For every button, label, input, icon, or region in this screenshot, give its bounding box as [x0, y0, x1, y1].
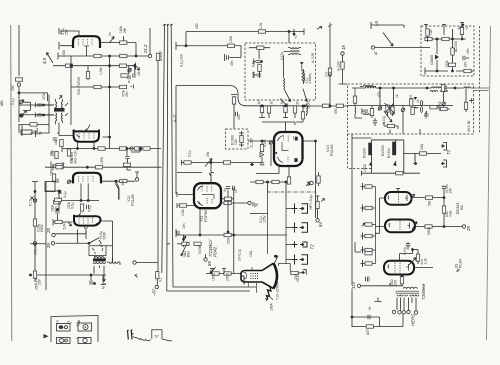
- capacitor C y87: [131, 85, 134, 89]
- picture tube internal electrode dots: [251, 274, 259, 279]
- svg-text:2n: 2n: [270, 101, 274, 105]
- tick c + resistor Ra2: [460, 22, 464, 28]
- svg-text:300Ω: 300Ω: [307, 100, 311, 109]
- wire audio feed: [351, 242, 353, 327]
- tube V6 (PCL85 triode) envelope: [74, 212, 101, 228]
- svg-text:ГЛ: ГЛ: [56, 320, 60, 324]
- resistor R y182a: [256, 180, 263, 183]
- heater bars left: [355, 242, 361, 252]
- resistor Ra6: [448, 63, 455, 66]
- terminal 18c: [135, 178, 138, 181]
- junction dots y200: [80, 200, 82, 202]
- resistor R 7k: [194, 242, 201, 245]
- ground bar: [375, 298, 382, 302]
- zigzag resistor L11 line: [302, 65, 304, 82]
- resistor R 84: [316, 201, 319, 208]
- coil L1: [365, 87, 376, 88]
- resistor Ra5: [451, 48, 454, 55]
- svg-text:150k: 150k: [62, 49, 66, 57]
- wire y92.9: [19, 93, 48, 101]
- diode Da: [435, 55, 439, 60]
- svg-text:AС/100: AС/100: [454, 41, 458, 52]
- svg-text:150: 150: [429, 29, 433, 35]
- dashed box tuner lower extension: [348, 134, 372, 169]
- svg-text:1k: 1k: [395, 94, 399, 98]
- resistor Ra3: [425, 37, 432, 40]
- EHT lightning bolt: [267, 286, 272, 300]
- connector arrow yoke: [301, 270, 307, 275]
- svg-text:AH/MF: AH/MF: [159, 51, 163, 61]
- junction 10n: [183, 238, 185, 240]
- picture tube (side view) envelope: [241, 263, 274, 288]
- capacitor C 40n: [236, 112, 238, 116]
- terminal 84: [316, 219, 319, 222]
- coil tuner b: [430, 91, 448, 92]
- svg-text:1M: 1M: [54, 140, 58, 145]
- ground cap C tg: [426, 111, 428, 114]
- bottom rail parts: [90, 280, 92, 284]
- small box component: [21, 130, 32, 134]
- T2 connector pair (right): [404, 143, 447, 168]
- deflection connector pairs column (middle): [292, 204, 308, 265]
- picture tube screen face: [274, 263, 278, 288]
- trimmer mid: [128, 69, 131, 72]
- wire IF box top: [176, 86, 300, 195]
- svg-text:40n: 40n: [466, 48, 470, 54]
- resistor R v5out: [317, 176, 320, 183]
- wire v5 grid: [248, 140, 274, 166]
- svg-text:0,2M: 0,2M: [263, 139, 267, 147]
- tube V7 (PCF80) envelope: [193, 182, 222, 208]
- switch blade vert: [89, 238, 103, 247]
- wire v6 top: [58, 191, 60, 220]
- resistor R out: [366, 325, 373, 328]
- svg-text:7k/3W: 7k/3W: [198, 244, 202, 254]
- junction dot vol: [210, 162, 212, 164]
- terminal 26: [51, 242, 54, 245]
- tube V8 envelope: [385, 192, 415, 205]
- wire y66 rail: [53, 63, 136, 74]
- V5 grid feed: [262, 122, 295, 132]
- arrow anode: [110, 37, 115, 43]
- svg-text:132k: 132k: [181, 208, 185, 216]
- transistor blob: [21, 115, 23, 117]
- diode D sound: [300, 62, 304, 65]
- mid bus wire C: [171, 24, 256, 287]
- CRT grid resistors: [212, 272, 219, 275]
- trimmer core: [269, 141, 272, 144]
- svg-text:150: 150: [70, 157, 74, 163]
- capacitor C out: [368, 315, 370, 319]
- svg-text:89: 89: [207, 261, 212, 266]
- tube V7 bottom lead: [199, 208, 201, 235]
- wires sound takeoff: [127, 149, 140, 171]
- svg-text:20k: 20k: [121, 180, 125, 186]
- resistor R 100k v3: [52, 174, 55, 181]
- svg-text:100: 100: [234, 139, 238, 145]
- resistor R v7 plate: [224, 201, 231, 204]
- capacitor C1c: [128, 75, 130, 79]
- V10 bottom: [401, 275, 403, 286]
- svg-text:M: M: [102, 286, 106, 289]
- wire component row y103: [232, 103, 300, 105]
- svg-text:BV200: BV200: [363, 148, 367, 158]
- lamp: [33, 242, 36, 245]
- wire CRT anode right: [279, 263, 291, 271]
- svg-text:100n: 100n: [424, 111, 428, 119]
- trimmer osc: [19, 101, 22, 104]
- svg-text:Y12–23SPA: Y12–23SPA: [276, 281, 280, 300]
- resistor R fm: [353, 96, 356, 103]
- antenna post x35: [31, 182, 39, 200]
- junction dot v3 out: [115, 180, 117, 182]
- resistor Ra1: [426, 29, 429, 36]
- wire y243 heater: [30, 242, 89, 245]
- coil MF: [307, 104, 308, 117]
- wire V6 grid: [46, 191, 73, 222]
- coil L fm: [355, 88, 362, 118]
- wires AGC: [428, 29, 467, 48]
- mid bus wire A: [162, 24, 165, 273]
- video det box: diode BY: [239, 131, 244, 147]
- svg-text:150k: 150k: [445, 60, 449, 68]
- svg-text:30Ω: 30Ω: [420, 143, 424, 150]
- capacitor C anode v7: [226, 187, 230, 189]
- picture tube leads: [248, 266, 256, 293]
- arrow AGC 4.5: [47, 53, 54, 64]
- svg-text:А5Т: А5Т: [366, 329, 370, 335]
- wire V7 top: [209, 173, 211, 183]
- trimmer T t1: [378, 107, 381, 110]
- resistor Ra4: [442, 37, 449, 40]
- svg-text:120k: 120k: [100, 156, 104, 164]
- tuner module feed wire: [352, 134, 371, 242]
- terminal 87: [155, 263, 159, 289]
- transformer vertical output: [93, 256, 120, 274]
- resistor on T2 line: [419, 152, 426, 155]
- svg-text:1k: 1k: [234, 189, 238, 193]
- loop wire: [23, 102, 31, 110]
- svg-text:180: 180: [464, 62, 468, 68]
- label A arrow: [317, 27, 322, 30]
- wire y124: [19, 123, 49, 125]
- wires sound box: [260, 51, 291, 78]
- resistor R rail b: [119, 147, 126, 150]
- svg-text:+О: +О: [368, 306, 372, 311]
- svg-text:+2: +2: [294, 35, 298, 39]
- svg-text:АГ: АГ: [374, 51, 378, 55]
- resistor Rs2: [143, 147, 150, 150]
- resistor R t5: [411, 107, 414, 114]
- wire Ra drop: [249, 48, 270, 59]
- svg-text:200Ω: 200Ω: [226, 272, 230, 281]
- right side feed column: [361, 183, 376, 267]
- svg-text:+L: +L: [465, 26, 469, 30]
- capacitor C 0.05u: [33, 219, 36, 226]
- wire V1 grid loop: [59, 28, 79, 50]
- svg-text:83: 83: [306, 181, 311, 186]
- V5 input parts: resistor R vg: [260, 144, 263, 151]
- small box ratio det: [45, 182, 55, 192]
- svg-text:25V: 25V: [38, 278, 42, 285]
- junction diamond: [59, 191, 61, 193]
- wire V3 plate: [102, 181, 135, 199]
- svg-text:A–3Σ: A–3Σ: [173, 114, 177, 122]
- junction dot y167: [86, 166, 88, 168]
- svg-text:20Ω: 20Ω: [390, 279, 394, 286]
- resistor R if2: [55, 151, 58, 158]
- sheet right border line: [487, 26, 491, 340]
- capacitor Ca: [463, 56, 465, 60]
- svg-text:30n: 30n: [367, 276, 371, 282]
- resistor R v8a: [425, 196, 432, 199]
- resistor R v2 cath: [60, 139, 63, 146]
- resistor R1a on y56: [94, 54, 101, 57]
- svg-text:80k: 80k: [328, 71, 332, 77]
- resistor R 30: [301, 112, 304, 119]
- svg-text:BER8: BER8: [438, 101, 442, 110]
- svg-text:125V: 125V: [263, 214, 267, 223]
- resistor R1b on y66: [119, 64, 126, 67]
- resistor R v6 top: [54, 198, 61, 201]
- resistor R v3 plate load: [95, 166, 102, 169]
- svg-text:PL84: PL84: [459, 259, 463, 268]
- capacitor Ct left: [362, 108, 364, 114]
- tube V2 envelope: [74, 125, 99, 142]
- dashed vertical frame line right: [479, 26, 481, 134]
- resistor R v3k: [80, 204, 83, 211]
- tube V3 leads: [71, 182, 88, 201]
- svg-text:56k: 56k: [428, 200, 432, 206]
- wire CRT neck feed: [206, 273, 241, 275]
- svg-text:5,6k: 5,6k: [63, 223, 67, 230]
- resistor R on y167: [56, 166, 63, 169]
- terminal rail: [130, 147, 133, 150]
- capacitor C AGC: [227, 55, 229, 59]
- svg-text:35k: 35k: [50, 150, 54, 156]
- V9 anode wire: [375, 198, 462, 233]
- junction + drop to sound box: [288, 31, 290, 33]
- tick b: [442, 24, 446, 35]
- T bars V7 grid: [177, 192, 194, 208]
- capacitor Cb: [254, 59, 256, 65]
- terminal 113: [357, 284, 360, 287]
- svg-text:4k7: 4k7: [257, 99, 261, 104]
- svg-text:5n: 5n: [296, 101, 300, 105]
- resistor R anode V1: [120, 41, 127, 44]
- capacitor C ratio b: [35, 113, 38, 118]
- wire y200.5: [60, 200, 99, 202]
- arrow IF in: [280, 99, 288, 107]
- resistor R vol2: [223, 161, 230, 164]
- junction dots s: [126, 148, 128, 150]
- svg-text:PCF80: PCF80: [204, 210, 208, 222]
- terminal 89: [204, 258, 207, 261]
- svg-text:T3/68ем: T3/68ем: [421, 284, 426, 300]
- terminal 28L: [52, 233, 55, 236]
- svg-text:20k: 20k: [206, 151, 210, 157]
- wire y56 rail: [58, 53, 148, 60]
- resistor R mains: [33, 271, 36, 278]
- svg-text:5k: 5k: [39, 131, 43, 135]
- capacitor C v5k: [260, 163, 264, 165]
- trimmer V3 grid: [67, 180, 70, 183]
- svg-text:9А: 9А: [460, 205, 464, 210]
- arrow +LY: [321, 199, 325, 202]
- tube V3 envelope: [73, 173, 101, 184]
- tube V6 leads: [78, 230, 87, 244]
- resistor R grid v6: [55, 220, 62, 223]
- svg-text:0,5μ: 0,5μ: [71, 202, 75, 209]
- wire sound output taps: [352, 314, 403, 327]
- svg-text:0,47μ: 0,47μ: [382, 116, 386, 124]
- node +2 tick: [293, 29, 295, 34]
- wire y182 row: [250, 182, 286, 200]
- waveform sketch: [127, 330, 172, 342]
- coil L2: [431, 87, 441, 88]
- svg-text:4,5: 4,5: [42, 57, 47, 64]
- capacitor C y75: [133, 73, 135, 77]
- resistor R anode v7: [224, 197, 231, 200]
- plug ident box: [51, 316, 98, 344]
- wire V1 anode: [99, 36, 136, 56]
- svg-text:0,68: 0,68: [252, 71, 256, 78]
- svg-text:BV200г: BV200г: [381, 144, 385, 156]
- svg-text:84: 84: [318, 222, 323, 227]
- resistor R v5k2: [287, 177, 290, 184]
- svg-text:BY204: BY204: [387, 148, 391, 158]
- svg-text:120k: 120k: [227, 237, 231, 245]
- svg-text:Bild: Bild: [187, 251, 191, 257]
- capacitor C v7: [177, 231, 179, 235]
- svg-text:100k: 100k: [50, 168, 54, 176]
- svg-text:600V: 600V: [40, 223, 44, 232]
- resistor R supply: [442, 206, 445, 213]
- vertical feed x234: [231, 95, 237, 129]
- arrow +L: [458, 24, 464, 29]
- wire video out: [303, 141, 316, 218]
- svg-text:28: 28: [466, 226, 471, 232]
- tube V10 (PL84 output) envelope: [384, 261, 414, 275]
- trimmer T t2: [401, 108, 404, 111]
- resistor R 100k AGC: [227, 44, 234, 47]
- arrow to sync: [115, 183, 118, 199]
- mid bus wire B: [167, 24, 250, 291]
- coil L11 46MHz: [304, 69, 305, 84]
- resistor R sync: [120, 179, 127, 182]
- resistor R t1: [370, 108, 373, 115]
- coil tuner d: [363, 114, 371, 115]
- resistor R 120k on rail: [224, 233, 231, 236]
- row y106: resistor Rj: [322, 104, 329, 107]
- capacitor C ratio a: [35, 103, 38, 108]
- svg-text:ЗВ: ЗВ: [77, 319, 81, 324]
- resistor R1d on y87: [94, 85, 101, 88]
- capacitor C if: [51, 162, 56, 169]
- bottom rail AGC: [425, 55, 474, 74]
- svg-text:21,2: 21,2: [143, 44, 148, 54]
- svg-text:300V: 300V: [103, 231, 107, 240]
- resistor R left: [53, 201, 60, 204]
- wire y148.5 rail: [62, 145, 161, 152]
- svg-text:0,1μ: 0,1μ: [63, 191, 67, 198]
- svg-text:T2: T2: [446, 149, 451, 155]
- svg-text:F1,5: F1,5: [29, 199, 33, 206]
- dashed box AGC (top right): [421, 26, 474, 76]
- comb feed vertical wire: [268, 192, 293, 264]
- dashed box sound IF module: [245, 43, 316, 100]
- resistor R y75: [121, 74, 128, 77]
- resistor R t8: [464, 102, 467, 109]
- svg-text:40n: 40n: [237, 114, 241, 120]
- svg-text:100k: 100k: [229, 35, 233, 43]
- svg-text:200: 200: [394, 280, 398, 286]
- svg-text:0,1μ: 0,1μ: [88, 205, 92, 212]
- resistor R if3: [56, 163, 63, 166]
- resistor Ra7: [464, 69, 471, 72]
- svg-text:470k: 470k: [42, 92, 46, 100]
- svg-text:PCL85: PCL85: [131, 194, 135, 206]
- svg-text:A–Y2Е: A–Y2Е: [311, 52, 315, 63]
- sound pot: [205, 159, 212, 167]
- capacitor C v3k: [87, 205, 89, 209]
- svg-text:10n: 10n: [182, 223, 186, 229]
- resistor R t7: [440, 107, 447, 110]
- arrow sound out: [303, 89, 307, 102]
- antenna link L5: [371, 22, 430, 49]
- supply vertical x444: [443, 189, 445, 227]
- resistor R 140k: [441, 84, 444, 91]
- svg-text:40n: 40n: [54, 206, 58, 212]
- coil L3: [464, 87, 471, 88]
- junction y66: [134, 65, 136, 67]
- svg-text:PCL84: PCL84: [330, 144, 334, 156]
- arrow into V10: [409, 258, 416, 265]
- svg-text:0,1μ: 0,1μ: [61, 162, 65, 169]
- svg-text:47k: 47k: [377, 91, 381, 97]
- terminal y262: [133, 261, 136, 264]
- svg-text:0,1: 0,1: [159, 277, 163, 282]
- left supply bus wire: [18, 25, 20, 133]
- wire screen divider: [71, 49, 129, 125]
- svg-text:–87: –87: [152, 288, 157, 297]
- AGC box: tick a: [424, 24, 428, 29]
- capacitor Cd: [254, 72, 257, 78]
- bus top ticks: [163, 24, 173, 26]
- capacitor Cs: [125, 157, 129, 159]
- resistor R link to bus: [156, 53, 159, 60]
- tube V5 (PCL84 video) envelope: [274, 131, 303, 166]
- probe T mark: [34, 131, 38, 137]
- svg-text:40n: 40n: [125, 91, 129, 97]
- svg-text:25V: 25V: [449, 187, 453, 194]
- svg-text:10Ω: 10Ω: [249, 250, 253, 257]
- capacitor C t right: [469, 98, 474, 103]
- svg-text:T2: T2: [310, 244, 315, 250]
- wire x35 lower: [34, 203, 36, 242]
- arrow if: [134, 64, 140, 70]
- terminal 21.2: [148, 54, 151, 57]
- tick x136: [135, 275, 138, 278]
- capacitor C bottom: [373, 121, 377, 123]
- resistor R if1: [67, 149, 70, 156]
- svg-text:2W: 2W: [123, 27, 127, 33]
- resistor R vd: [232, 97, 235, 104]
- picture tube gun circle: [244, 272, 247, 278]
- resistor R y182b: [272, 180, 279, 183]
- svg-text:57: 57: [155, 334, 160, 339]
- svg-text:21,2Mг: 21,2Mг: [250, 137, 254, 148]
